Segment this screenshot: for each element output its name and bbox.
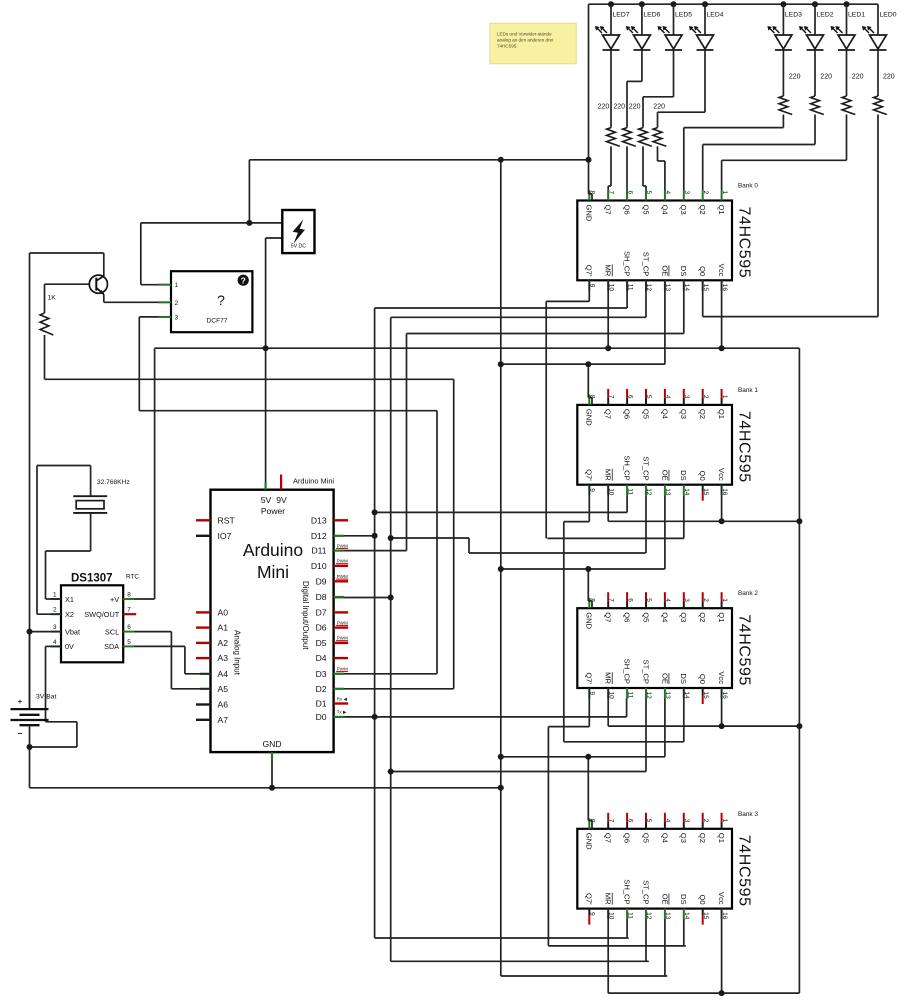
svg-text:Mini: Mini (257, 562, 289, 582)
svg-text:5: 5 (645, 191, 652, 195)
wire battery bottom lead (29, 725, 31, 747)
svg-text:4: 4 (664, 191, 671, 195)
junction pin8 bank1 (585, 361, 591, 367)
svg-text:D4: D4 (316, 653, 327, 663)
svg-text:Q5: Q5 (641, 833, 650, 843)
wire pin12 bank3 down (645, 919, 647, 961)
wire rail to LED7 (610, 4, 612, 35)
svg-text:ST_CP: ST_CP (641, 660, 650, 684)
LED LED1 (838, 35, 855, 49)
svg-text:D6: D6 (316, 623, 327, 633)
svg-text:Q2: Q2 (698, 833, 707, 843)
svg-text:A3: A3 (218, 653, 229, 663)
svg-text:A0: A0 (218, 607, 229, 617)
wire pin12 bank1 down (645, 495, 647, 553)
svg-text:ST_CP: ST_CP (641, 456, 650, 480)
svg-text:Q0: Q0 (698, 894, 707, 904)
svg-text:DCF77: DCF77 (207, 318, 228, 325)
transistor Q1 (89, 275, 107, 293)
wire ST_CP row bank3 (391, 960, 649, 962)
svg-text:DS: DS (679, 266, 688, 277)
wire pin14 bank2 down (683, 688, 685, 742)
wire left rail vertical (collector to battery+) (29, 253, 31, 709)
wire D2 net vertical (453, 379, 455, 689)
svg-text:GND: GND (262, 739, 281, 749)
wire 0V to battery- (30, 746, 77, 748)
wire to R LED5 (642, 97, 644, 128)
svg-text:MR: MR (604, 893, 613, 905)
svg-text:Q0: Q0 (698, 674, 707, 684)
wire D3 net vertical (436, 411, 438, 674)
wire D11 to DS vertical (334, 550, 407, 552)
svg-text:74HC595: 74HC595 (736, 835, 753, 907)
pin 5 (Q5) Bank 1 (645, 389, 647, 398)
svg-text:Q4: Q4 (660, 612, 669, 622)
pin 1 (Q1) Bank 3 (721, 813, 723, 822)
wire rail to LED3 (782, 4, 784, 35)
svg-text:Q7: Q7 (604, 833, 613, 843)
svg-text:Q4: Q4 (660, 833, 669, 843)
wire emitter to DCF77 pin2 (104, 301, 171, 303)
wire pin8 bank1 GND drop (587, 364, 589, 397)
svg-text:Q7: Q7 (604, 612, 613, 622)
wire Q2 row to LED2 (703, 144, 815, 146)
wire X1 row (46, 598, 62, 600)
wire rail to LED0 (877, 4, 879, 35)
wire SDA row (134, 645, 185, 647)
pin 14 (DS) Bank 0 (683, 280, 685, 291)
wire SCL vertical (170, 632, 172, 689)
wire DS vertical to D11 (406, 334, 408, 551)
svg-text:Q0: Q0 (698, 471, 707, 481)
svg-text:Q1: Q1 (717, 612, 726, 622)
junction GND trunk top (498, 157, 504, 163)
svg-text:SCL: SCL (105, 627, 119, 636)
svg-text:D5: D5 (316, 638, 327, 648)
svg-text:15: 15 (702, 912, 709, 920)
svg-text:5V DC: 5V DC (291, 243, 307, 249)
svg-text:D0: D0 (316, 712, 327, 722)
junction 5VDC/DCF77 GND (246, 220, 252, 226)
pin 1 (Q1) Bank 1 (721, 389, 723, 398)
svg-text:PWM: PWM (337, 559, 348, 564)
pin 10 (MR) Bank 0 (607, 280, 609, 291)
wire jog ST_CP bank1 (468, 538, 470, 553)
svg-text:Rx ◀: Rx ◀ (337, 696, 348, 701)
pin 3 (Vbat) DS1307 (51, 631, 62, 633)
svg-text:DS: DS (679, 894, 688, 905)
wire DCF77 pin3 row to D3 net (139, 410, 437, 412)
wire LED5 down (673, 51, 675, 97)
svg-text:SH_CP: SH_CP (623, 455, 632, 480)
svg-text:11: 11 (626, 692, 633, 699)
pin 8 (+V) DS1307 (123, 598, 134, 600)
svg-text:220: 220 (820, 74, 832, 81)
wire to pin1 bank0 (721, 160, 723, 190)
wire SDA to A4 (185, 673, 211, 675)
wire DCF77 pin1 row to 5VDC pin (141, 222, 282, 224)
wire to DCF77 pin1 (141, 284, 171, 286)
wire LED to R (846, 51, 848, 97)
wire Vbat row (30, 631, 62, 633)
wire to R LED6 (626, 81, 628, 127)
svg-text:5: 5 (645, 819, 652, 823)
svg-text:PWM: PWM (337, 636, 348, 641)
svg-text:6: 6 (626, 819, 633, 823)
wire rail to LED2 (814, 4, 816, 35)
pin 2 (Q2) Bank 3 (702, 813, 704, 822)
wire SH_CP row bank0 (375, 307, 627, 309)
svg-text:11: 11 (626, 488, 633, 495)
svg-text:Bank 2: Bank 2 (738, 590, 758, 597)
svg-text:D11: D11 (311, 546, 326, 556)
svg-text:1: 1 (721, 191, 728, 195)
pin 12 (ST_CP) Bank 1 (645, 485, 647, 496)
junction Vbat on left rail (27, 629, 33, 635)
wire emitter vertical (103, 294, 105, 302)
svg-text:7: 7 (607, 598, 614, 602)
pin GND Arduino (271, 752, 273, 759)
pin 9 (Q7') Bank 3 (588, 909, 590, 916)
wire pin14 bank3 down (683, 919, 685, 946)
svg-text:74HC595: 74HC595 (736, 614, 753, 686)
pin 1 DCF77 (159, 284, 172, 286)
wire LED to R (877, 51, 879, 97)
svg-text:Bank 1: Bank 1 (738, 387, 758, 394)
wire pin16 bank0 (Vcc) to 5V row (721, 280, 723, 348)
svg-text:4: 4 (664, 819, 671, 823)
pin 3 (Q3) Bank 0 (683, 190, 685, 201)
svg-text:3: 3 (175, 314, 179, 321)
svg-text:74HC595: 74HC595 (736, 411, 753, 483)
wire collector vertical (103, 253, 105, 276)
wire LED rail left drop / GND (588, 4, 590, 194)
junction D12 on SH_CP trunk (372, 533, 378, 539)
svg-text:32.768KHz: 32.768KHz (97, 479, 130, 486)
svg-text:LED2: LED2 (817, 12, 834, 19)
74HC595 U2 Bank 1 (577, 405, 732, 485)
svg-text:LED3: LED3 (785, 12, 802, 19)
pin 13 (OE) Bank 1 (664, 485, 666, 496)
svg-text:OE: OE (660, 265, 669, 276)
svg-text:5: 5 (645, 598, 652, 602)
pin 5 (Q5) Bank 2 (645, 592, 647, 601)
pin 2 DCF77 (159, 301, 172, 303)
pin 13 (OE) Bank 2 (664, 688, 666, 699)
junction top rail at LED3 (780, 1, 786, 7)
svg-text:A6: A6 (218, 700, 229, 710)
wire DCF77 pin3 vertical (138, 317, 140, 411)
pin 14 (DS) Bank 1 (683, 485, 685, 496)
svg-text:Q7': Q7' (585, 672, 594, 684)
wire LED to R (814, 51, 816, 97)
LED LED2 (807, 35, 824, 49)
pin 7 (Q7) Bank 3 (607, 813, 609, 822)
junction Vcc bank2 (719, 723, 725, 729)
wire R-LED3 down (782, 115, 784, 128)
svg-text:7: 7 (607, 191, 614, 195)
svg-text:13: 13 (664, 912, 671, 920)
svg-text:Q1: Q1 (717, 409, 726, 419)
svg-text:Bank 0: Bank 0 (738, 183, 758, 190)
MCU Arduino Mini (211, 490, 334, 752)
wire Q7' row bank2 (548, 726, 589, 728)
pin 1 (X1) DS1307 (51, 598, 62, 600)
svg-text:X2: X2 (65, 610, 74, 619)
wire Q0 row (pin15 bank0) to LED0 (703, 316, 878, 318)
pin 16 (Vcc) Bank 2 (721, 688, 723, 699)
svg-text:1: 1 (53, 592, 57, 599)
wire OE/GND row bank0 (501, 363, 665, 365)
svg-text:Q7: Q7 (604, 409, 613, 419)
svg-text:1: 1 (721, 598, 728, 602)
pin 11 (SH_CP) Bank 0 (626, 280, 628, 291)
junction D0 on SH_CP trunk (372, 714, 378, 720)
pin 5 (Q5) Bank 0 (645, 190, 647, 201)
svg-text:12: 12 (645, 692, 652, 700)
junction ST_CP branch bank1 (388, 535, 394, 541)
wire Q3 row to LED3 (684, 127, 784, 129)
svg-text:6: 6 (626, 598, 633, 602)
wire LED7 to R (220) (610, 51, 612, 128)
wire SDA vertical (184, 646, 186, 673)
pin 16 (Vcc) Bank 0 (721, 280, 723, 291)
pin 4 (Q4) Bank 0 (664, 190, 666, 201)
pin 16 (Vcc) Bank 1 (721, 485, 723, 496)
svg-text:Q7: Q7 (604, 205, 613, 215)
wire GND bottom rail (30, 787, 501, 789)
wire +5V right vertical rail (798, 348, 800, 993)
power supply 5V DC (282, 210, 314, 253)
wire MR/Vcc row bank1 (608, 520, 799, 522)
pin 14 (DS) Bank 2 (683, 688, 685, 699)
LED LED5 (665, 35, 682, 49)
wire D0/Tx row to pin11 bank2 (334, 716, 627, 718)
wire to R LED4 (657, 112, 659, 127)
pin 7 (Q7) Bank 0 (607, 190, 609, 201)
svg-text:GND: GND (585, 409, 594, 426)
pin 3 (Q3) Bank 3 (683, 813, 685, 822)
wire pin11 bank2 down (626, 699, 628, 717)
svg-text:MR: MR (604, 469, 613, 481)
wire pin12 bank0 (ST_CP) (645, 280, 647, 317)
pin 7 (SWQ/OUT) DS1307 (123, 613, 136, 615)
wire pin13 bank2 (OE) down (664, 699, 666, 757)
wire R-LED5 down (642, 146, 644, 186)
wire GND row bank1 / OE bank0 (501, 363, 665, 365)
pin 8 (GND) Bank 1 (588, 394, 590, 405)
svg-text:7: 7 (607, 395, 614, 399)
svg-text:Q3: Q3 (679, 833, 688, 843)
LED LED3 (775, 35, 792, 49)
wire ST_CP trunk vertical (390, 317, 392, 961)
svg-text:DS: DS (679, 673, 688, 684)
svg-text:+V: +V (110, 595, 119, 604)
svg-text:DS1307: DS1307 (71, 573, 113, 585)
pin 6 (Q6) Bank 2 (626, 592, 628, 601)
wire 0V row (46, 645, 62, 647)
wire MR/Vcc row bank2 (608, 725, 799, 727)
badge question mark DCF77 (238, 275, 249, 286)
svg-text:3V Bat: 3V Bat (36, 694, 57, 701)
IC DS1307 RTC (61, 585, 123, 662)
wire R-LED4 down (657, 146, 659, 161)
pin 15 (Q0) Bank 3 (702, 909, 704, 916)
svg-text:SWQ/OUT: SWQ/OUT (84, 610, 119, 619)
wire D12 to SH_CP trunk (334, 535, 375, 537)
svg-text:Vcc: Vcc (717, 892, 726, 905)
wire D8 to ST_CP trunk (334, 597, 391, 599)
svg-text:PWM: PWM (337, 574, 348, 579)
wire SH_CP row bank3 (375, 937, 629, 939)
wire rail to LED4 (704, 4, 706, 35)
svg-text:2: 2 (702, 819, 709, 823)
junction top rail at LED6 (639, 1, 645, 7)
wire Q7' bank0 vertical (545, 301, 547, 538)
wire collector top row (30, 252, 104, 254)
wire R-LED6 down (626, 146, 628, 188)
icon lightning bolt (293, 220, 305, 244)
svg-text:D2: D2 (316, 684, 327, 694)
wire +V row (134, 598, 155, 600)
pin 16 (Vcc) Bank 3 (721, 909, 723, 920)
wire GND row to bank0 (249, 159, 588, 161)
wire 5VDC to Arduino 5V vertical (265, 238, 267, 490)
svg-text:analog an den anderen drei: analog an den anderen drei (497, 38, 553, 43)
wire Arduino GND down (271, 759, 273, 788)
pin 8 (GND) Bank 0 (588, 190, 590, 201)
pin 6 (Q6) Bank 1 (626, 389, 628, 398)
wire pin8 bank3 GND drop (587, 757, 589, 821)
wire 0V down (76, 722, 78, 747)
svg-text:Q3: Q3 (679, 205, 688, 215)
LED LED6 (633, 35, 650, 49)
svg-text:14: 14 (683, 488, 690, 496)
svg-text:3: 3 (683, 395, 690, 399)
LED LED7 (603, 35, 620, 49)
svg-text:D3: D3 (316, 669, 327, 679)
pin 10 (MR) Bank 3 (607, 909, 609, 920)
svg-text:Q2: Q2 (698, 612, 707, 622)
wire 1K row to D2 net (45, 378, 454, 380)
wire pin10 bank3 down (607, 909, 609, 994)
pin 11 (SH_CP) Bank 3 (626, 909, 628, 920)
svg-text:220: 220 (613, 104, 625, 111)
svg-text:15: 15 (702, 488, 709, 496)
pin 7 (Q7) Bank 2 (607, 592, 609, 601)
wire pin8 bank2 GND drop (587, 569, 589, 601)
wire pin11 bank1 down (626, 495, 628, 512)
svg-text:A2: A2 (218, 638, 229, 648)
wire crystal top lead (90, 466, 92, 497)
pin 8 (GND) Bank 2 (588, 598, 590, 609)
svg-text:D12: D12 (311, 531, 327, 541)
LED LED0 (870, 35, 887, 49)
wire Q7' bank1 vertical (563, 522, 565, 742)
wire LED6 down (641, 51, 643, 82)
svg-text:Q2: Q2 (698, 205, 707, 215)
svg-text:14: 14 (683, 912, 690, 920)
junction GND trunk bank1 row (498, 361, 504, 367)
svg-text:LED1: LED1 (848, 12, 865, 19)
wire pin11 bank0 (SH_CP) (626, 280, 628, 308)
wire pin10 bank0 (MR) to 5V row (607, 280, 609, 348)
wire crystal top row (37, 465, 91, 467)
svg-text:3: 3 (683, 191, 690, 195)
junction top rail at LED5 (671, 1, 677, 7)
wire X2 row (37, 613, 61, 615)
wire LED5 jog (643, 96, 674, 98)
svg-text:3: 3 (683, 598, 690, 602)
wire Vcc/MR bottom row bank3 (608, 992, 799, 994)
wire 5VDC +5V pin (266, 237, 283, 239)
wire LED4 down (704, 51, 706, 113)
svg-text:Digital Input/Output: Digital Input/Output (301, 581, 310, 650)
pin 15 (Q0) Bank 2 (702, 688, 704, 695)
pin 6 (Q6) Bank 3 (626, 813, 628, 822)
junction top rail at LED1 (844, 1, 850, 7)
svg-text:5: 5 (645, 395, 652, 399)
resistor 220 (LED3) (779, 96, 792, 115)
svg-text:PWM: PWM (337, 667, 348, 672)
svg-text:1: 1 (175, 282, 179, 289)
wire 1K top lead (44, 284, 46, 313)
wire Q7' bank2 vertical (547, 727, 549, 946)
svg-text:A7: A7 (218, 715, 229, 725)
wire pin9 bank2 down (588, 688, 590, 727)
pin 13 (OE) Bank 3 (664, 909, 666, 920)
svg-text:Q6: Q6 (623, 205, 632, 215)
svg-text:13: 13 (664, 488, 671, 496)
wire LED6 jog (627, 80, 642, 82)
svg-text:SDA: SDA (104, 642, 119, 651)
svg-text:MR: MR (604, 264, 613, 276)
pin 4 (Q4) Bank 1 (664, 389, 666, 398)
74HC595 U4 Bank 3 (577, 829, 732, 909)
wire base row (45, 283, 90, 285)
wire pin13 bank1 (OE) down (664, 495, 666, 569)
svg-text:MR: MR (604, 672, 613, 684)
svg-text:2: 2 (702, 395, 709, 399)
svg-text:Q5: Q5 (641, 205, 650, 215)
pin 9 (Q7') Bank 1 (588, 485, 590, 496)
svg-text:8: 8 (127, 592, 131, 599)
junction D8 on ST_CP trunk (388, 595, 394, 601)
wire to pin3 bank0 (683, 128, 685, 190)
wire pin16 bank3 down (721, 909, 723, 994)
junction Vcc bank1 (719, 518, 725, 524)
svg-text:2: 2 (702, 191, 709, 195)
svg-text:6: 6 (626, 191, 633, 195)
svg-text:Vcc: Vcc (717, 264, 726, 277)
svg-text:4: 4 (664, 395, 671, 399)
svg-text:LEDs und Vorwider-stände: LEDs und Vorwider-stände (497, 32, 552, 37)
pin 12 (ST_CP) Bank 0 (645, 280, 647, 291)
junction pin8 bank3 (585, 754, 591, 760)
svg-text:74HC595: 74HC595 (736, 207, 753, 279)
svg-text:A4: A4 (218, 669, 229, 679)
svg-text:D10: D10 (311, 561, 327, 571)
svg-text:4: 4 (664, 598, 671, 602)
wire pin16 bank2 down (721, 688, 723, 726)
resistor R 1K (40, 313, 53, 335)
junction SH_CP branch bank1 (372, 509, 378, 515)
resistor 220 (LED1) (842, 96, 855, 115)
svg-text:7: 7 (607, 819, 614, 823)
svg-text:Q3: Q3 (679, 612, 688, 622)
svg-text:Vcc: Vcc (717, 671, 726, 684)
svg-text:Q7': Q7' (585, 893, 594, 905)
